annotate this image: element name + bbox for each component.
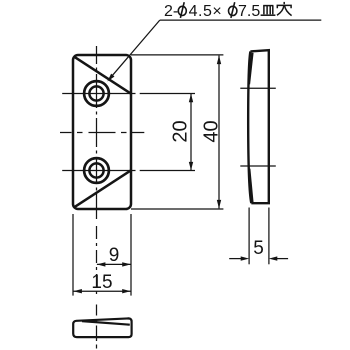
svg-text:7.5: 7.5 [238,3,260,20]
svg-text:9: 9 [109,245,120,266]
svg-text:15: 15 [91,272,112,293]
svg-text:2-: 2- [164,3,178,20]
svg-text:4.5×: 4.5× [189,3,223,20]
svg-text:40: 40 [200,120,222,142]
svg-text:5: 5 [253,238,264,259]
svg-text:20: 20 [170,120,192,142]
